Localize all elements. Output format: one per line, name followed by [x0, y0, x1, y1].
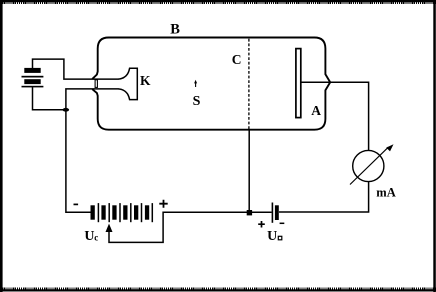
wire lower filament lead down to Uc [66, 89, 119, 212]
wiper arrow of Uc [106, 224, 113, 232]
wire anode to meter [302, 82, 369, 151]
label plus (Un) [258, 221, 265, 228]
battery Un cell [271, 203, 273, 223]
cathode K horn [118, 68, 137, 99]
anode plate [296, 49, 301, 118]
grid C dashed line [248, 39, 250, 130]
wire battery bottom to junction [33, 87, 66, 110]
filament battery (2 cells) [22, 68, 44, 88]
wire grid down to junction [248, 130, 250, 211]
wire wiper output [109, 212, 247, 242]
svg-text:A: A [311, 103, 321, 118]
ammeter mA [353, 150, 384, 181]
junction dot (filament/cathode node) [63, 108, 70, 112]
vapor arrow above S [195, 83, 197, 87]
pinch seal left [95, 80, 97, 88]
wire meter bottom to Un [279, 182, 369, 212]
svg-text:c: c [94, 232, 98, 242]
svg-text:K: K [140, 73, 151, 88]
label plus (Uc) [159, 200, 167, 208]
svg-text:U: U [84, 229, 94, 244]
svg-text:S: S [193, 94, 201, 109]
svg-text:C: C [232, 52, 242, 67]
wire battery top to upper filament lead [33, 59, 119, 79]
battery Uc bank: thick plates [91, 205, 150, 219]
svg-text:mA: mA [376, 186, 395, 200]
node junction grid wire / bottom wire [247, 210, 252, 215]
svg-text:B: B [170, 22, 180, 38]
label minus (Un) [280, 222, 285, 224]
wire junction to Un [252, 211, 272, 213]
svg-text:U: U [267, 229, 277, 244]
label minus (Uc) [74, 203, 79, 205]
tube B envelope [92, 38, 330, 130]
battery Uc bank: thin plates [98, 203, 152, 222]
